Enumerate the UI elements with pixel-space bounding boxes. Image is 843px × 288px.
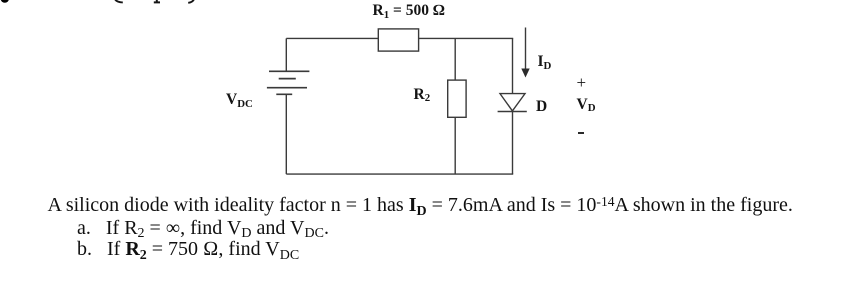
label R1 value: [373, 3, 445, 19]
wire left vertical upper (top wire to battery): [285, 38, 287, 71]
resistor R1: [378, 29, 418, 51]
resistor R2: [448, 80, 466, 117]
label R2: [414, 87, 431, 103]
wire top-left horizontal (battery top to R1): [286, 37, 378, 39]
label D: [536, 99, 547, 115]
wire diode branch upper (top wire to diode anode): [512, 38, 514, 93]
cropped heading glyph fragments along top edge: [0, 0, 220, 8]
wire R2 branch lower (R2 to bottom wire): [454, 117, 456, 174]
label VDC: [226, 92, 253, 108]
problem statement line b: [77, 239, 299, 259]
current arrow ID: [521, 28, 529, 78]
cropped "(" bottom fragment: [114, 0, 123, 2]
label minus: [578, 132, 585, 134]
battery VDC: [267, 71, 310, 94]
cropped bullet fragment: [1, 0, 9, 3]
label plus: [577, 74, 587, 91]
wire top-right horizontal (R1 to node at diode branch): [419, 37, 514, 39]
wire diode branch lower (diode cathode to bottom wire): [512, 112, 514, 175]
problem statement line a: [77, 218, 329, 238]
wire left vertical lower (battery to bottom wire): [285, 94, 287, 174]
wire bottom horizontal: [286, 173, 513, 175]
cropped ")" bottom fragment: [188, 0, 194, 3]
cropped "p" descender fragment: [154, 0, 160, 2]
diode D (triangle and cathode bar): [498, 94, 527, 112]
problem statement line 1: [48, 195, 793, 215]
label ID: [538, 54, 552, 70]
label VD: [577, 97, 596, 113]
wire R2 branch upper (top wire to R2): [454, 38, 456, 80]
